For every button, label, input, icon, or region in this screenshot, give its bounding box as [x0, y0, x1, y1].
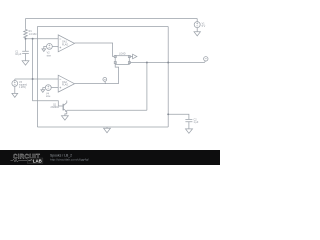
- wire inner left vertical: [36, 27, 38, 128]
- wire LOAD bottom-left to U2 output node: [115, 65, 118, 84]
- node flag U2 bubble: [104, 81, 107, 83]
- ground C2: [186, 129, 193, 133]
- node flag OUT pennant: [133, 54, 137, 59]
- wire V4 to U2: [51, 87, 58, 89]
- svg-text:2N3904: 2N3904: [51, 106, 60, 109]
- wire top outer rail: [26, 18, 198, 20]
- svg-text:LOAD: LOAD: [119, 52, 126, 55]
- wire Q1 collector to LOAD output node: [67, 63, 147, 111]
- relay LOAD box: [115, 56, 129, 65]
- footer bar: [0, 150, 220, 165]
- op-amp U2: [58, 75, 74, 92]
- svg-text:sine: sine: [47, 54, 52, 57]
- wire LOAD top-right stub: [130, 56, 132, 58]
- wire branch node to V3 node to Q1 base: [33, 39, 64, 106]
- wire V3 bottom lead: [14, 86, 16, 93]
- ground V1: [194, 32, 200, 36]
- voltage source V4: [45, 85, 51, 91]
- svg-text:10 µF: 10 µF: [15, 53, 22, 56]
- resistor R1: [24, 29, 28, 39]
- ground Q1: [62, 116, 69, 120]
- wire right vertical: [167, 27, 169, 128]
- capacitor C2: [185, 119, 192, 121]
- wire V1 stem: [196, 19, 198, 22]
- wire node R1-C1 to op-amp U1 input: [26, 38, 59, 40]
- junction dots: [25, 38, 170, 116]
- capacitor C1: [22, 51, 29, 53]
- ground bus: [104, 127, 111, 133]
- wire V4 left lead: [43, 88, 46, 90]
- caption text: [50, 153, 89, 161]
- wire U2 output: [75, 83, 119, 85]
- logo CircuitLab: [11, 153, 43, 163]
- ground V2 flag: [42, 49, 46, 52]
- wire C1 bottom lead: [25, 54, 27, 61]
- wire V2 left lead: [44, 46, 47, 49]
- svg-text:5 V: 5 V: [202, 25, 206, 28]
- svg-text:http://circuitlab.com/c6gg4gf: http://circuitlab.com/c6gg4gf: [50, 158, 89, 162]
- wire V2 to U1: [52, 46, 58, 47]
- ground C1: [22, 61, 29, 65]
- svg-text:FLAG: FLAG: [62, 84, 68, 87]
- ground V3: [12, 93, 18, 97]
- ground V4 flag: [41, 90, 45, 93]
- voltage source V2: [47, 44, 53, 50]
- svg-text:1 µF: 1 µF: [194, 121, 199, 124]
- op-amp U1: [58, 35, 74, 52]
- wire inner top rail: [37, 26, 168, 28]
- node flag right bubble: [205, 61, 206, 63]
- svg-text:Spooks / LB_2: Spooks / LB_2: [50, 153, 72, 157]
- tiny component value labels: [15, 22, 205, 124]
- wire U1 output: [75, 43, 115, 57]
- svg-text:LAB: LAB: [33, 158, 42, 163]
- wire V3 top lead: [14, 79, 16, 81]
- wire C2 bottom lead: [188, 122, 190, 129]
- wire cap branch: [168, 114, 189, 119]
- wire left outer vertical: [25, 19, 27, 29]
- wire bottom bus: [37, 126, 168, 128]
- wire C1 top lead: [25, 39, 27, 51]
- wire V3 to op-amp U2 input: [15, 78, 58, 80]
- wire V1 bottom lead: [196, 28, 198, 32]
- voltage source V1: [194, 22, 200, 28]
- svg-text:sine: sine: [46, 95, 51, 98]
- svg-text:FLAG: FLAG: [62, 43, 68, 46]
- svg-text:1 kHz): 1 kHz): [19, 86, 26, 89]
- svg-text:1.0 MΩ: 1.0 MΩ: [29, 33, 37, 36]
- transistor Q1: [62, 104, 64, 111]
- voltage source V3: [12, 81, 18, 87]
- wire LOAD bottom-right long wire: [130, 62, 204, 64]
